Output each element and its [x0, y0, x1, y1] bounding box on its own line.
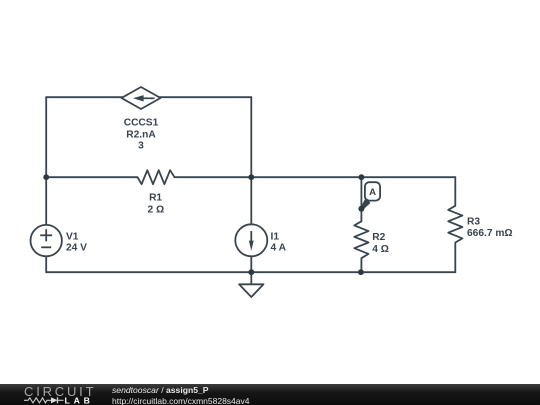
wire R3 branch upper	[454, 177, 456, 206]
logo diode	[51, 397, 58, 403]
wire right rail lower	[250, 256, 252, 272]
resistor R3	[448, 206, 462, 243]
wire left rail lower	[45, 256, 47, 272]
logo resistor squiggle	[24, 398, 51, 403]
junction node right rail / mid wire	[248, 174, 254, 180]
svg-text:4 Ω: 4 Ω	[372, 244, 389, 255]
svg-text:4 A: 4 A	[271, 243, 287, 254]
svg-text:LAB: LAB	[65, 396, 94, 405]
svg-text:V1: V1	[66, 231, 79, 242]
wire top horizontal	[46, 96, 251, 98]
resistor R2	[354, 221, 368, 258]
CircuitLab logo text CIRCUIT	[24, 384, 96, 399]
wire mid horizontal to R3	[361, 176, 455, 178]
wire R2 branch lower	[360, 258, 362, 272]
svg-text:3: 3	[138, 140, 144, 151]
ammeter probe A	[358, 182, 380, 212]
current source I1	[235, 224, 267, 256]
svg-text:R3: R3	[467, 216, 480, 227]
wire R2 branch upper	[360, 177, 362, 221]
wire bottom horizontal	[46, 271, 455, 273]
svg-text:A: A	[369, 187, 376, 198]
footer bar	[0, 384, 540, 405]
wire mid horizontal right of R1	[175, 176, 362, 178]
ground	[239, 272, 263, 297]
svg-text:R1: R1	[149, 192, 162, 203]
footer url line	[112, 396, 249, 405]
junction node left rail / mid wire	[43, 174, 49, 180]
CircuitLab logo squiggle and LAB	[23, 396, 98, 405]
junction node I1 / bottom wire	[248, 269, 254, 275]
dependent source CCCS1 diamond	[122, 87, 161, 109]
wire R3 branch lower	[454, 243, 456, 273]
svg-text:R2: R2	[372, 232, 385, 243]
junction node R2 branch / mid wire	[359, 174, 365, 180]
svg-text:I1: I1	[271, 231, 280, 242]
wire left rail upper	[45, 97, 47, 225]
footer attribution line	[112, 385, 209, 395]
junction node R2 branch / bottom wire	[358, 269, 364, 275]
voltage source V1	[31, 225, 62, 256]
svg-text:2 Ω: 2 Ω	[147, 204, 164, 215]
svg-text:R2.nA: R2.nA	[126, 130, 156, 141]
resistor R1	[138, 170, 175, 184]
svg-text:CCCS1: CCCS1	[124, 117, 159, 128]
svg-text:666.7 mΩ: 666.7 mΩ	[467, 228, 513, 239]
wire right rail upper	[250, 97, 252, 224]
svg-text:24 V: 24 V	[66, 243, 87, 254]
wire mid horizontal left of R1	[46, 176, 137, 178]
